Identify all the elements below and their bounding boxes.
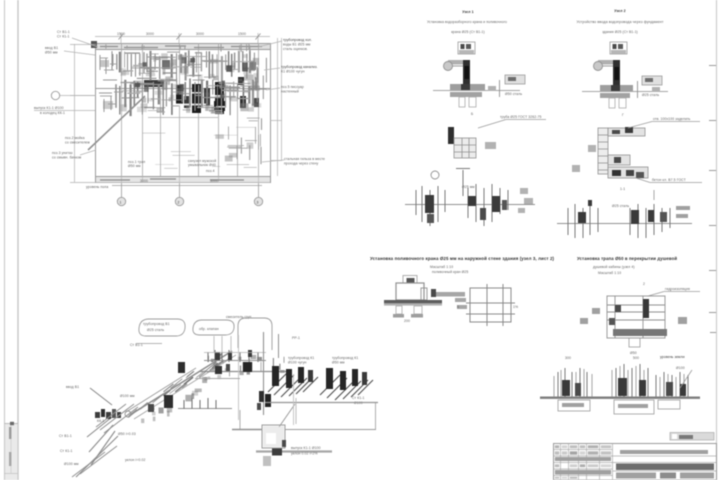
riser detail — [433, 60, 525, 107]
axono text blocks mid — [288, 356, 358, 365]
callout right 1 — [283, 38, 312, 51]
small box detail — [610, 42, 627, 54]
svg-text:3000: 3000 — [140, 179, 148, 183]
plan top wall band — [96, 44, 270, 50]
svg-text:поз.5 писсуар: поз.5 писсуар — [281, 85, 304, 89]
svg-text:уклон 0.02 i=2%: уклон 0.02 i=2% — [291, 452, 318, 456]
fan leaders lower-left — [76, 388, 118, 477]
valve blobs on diagonal — [148, 362, 185, 412]
callout right 3 — [281, 85, 304, 94]
sheet margin line inner — [17, 0, 19, 480]
svg-text:2: 2 — [178, 201, 180, 205]
svg-text:КК-1: КК-1 — [97, 419, 104, 423]
blob white slits — [174, 92, 226, 108]
svg-text:1%: 1% — [513, 305, 518, 309]
svg-text:Ø25 мм: Ø25 мм — [462, 185, 475, 189]
svg-text:поз.4: поз.4 — [206, 169, 215, 173]
svg-text:Ø100 мм: Ø100 мм — [64, 462, 79, 466]
callout left 1 — [57, 30, 70, 39]
svg-text:1-1: 1-1 — [620, 187, 625, 191]
right extension lines — [270, 38, 282, 176]
faint vertical at 238 — [238, 335, 240, 420]
axis circle 3 — [254, 197, 262, 205]
svg-text:3000: 3000 — [196, 32, 204, 36]
riser vertical to band — [278, 334, 280, 358]
callout left 4 — [65, 136, 90, 145]
small box detail — [458, 42, 475, 54]
bottom band with dark segment — [256, 450, 332, 452]
svg-text:здания Ø25 (Ст В1-1): здания Ø25 (Ст В1-1) — [602, 30, 638, 34]
svg-text:в колодец КК-1: в колодец КК-1 — [40, 111, 65, 115]
callout left 3 — [34, 106, 65, 115]
svg-text:Ø100 мм: Ø100 мм — [120, 394, 135, 398]
small box above stamp — [670, 433, 714, 441]
slab stack detail — [572, 113, 702, 191]
fixture band on axono — [208, 350, 258, 362]
callout left 2 — [45, 46, 58, 55]
svg-text:Ø25 сталь: Ø25 сталь — [612, 204, 629, 208]
node cluster — [96, 404, 138, 433]
dark marks on main horizontal — [215, 362, 252, 374]
twin cluster detail — [557, 190, 692, 238]
svg-text:300: 300 — [565, 356, 571, 360]
title — [427, 10, 507, 34]
svg-text:сталь оцинков.: сталь оцинков. — [283, 47, 308, 51]
below-line boxes — [558, 400, 680, 414]
plan diagonal leader — [88, 96, 145, 150]
svg-text:Ст К1-1: Ст К1-1 — [352, 396, 365, 400]
svg-text:Ø100: Ø100 — [676, 366, 685, 370]
svg-text:Ø25 сталь: Ø25 сталь — [147, 328, 164, 332]
plan dense texture — [100, 44, 267, 168]
svg-text:уклон i=0.02: уклон i=0.02 — [125, 458, 145, 462]
axono pipe texture — [72, 353, 285, 477]
vertical riser at 263 — [263, 332, 265, 415]
svg-text:Ø50 i=0.03: Ø50 i=0.03 — [118, 432, 136, 436]
junction well dark row — [95, 409, 121, 419]
outlet texts — [291, 446, 321, 456]
svg-text:Установка трапа Ø50 в перекрыт: Установка трапа Ø50 в перекрытии душевой — [577, 256, 677, 261]
diagonal into outlet — [279, 404, 295, 427]
ground line under clusters — [265, 402, 378, 404]
fan labels — [59, 385, 79, 466]
riser detail — [582, 60, 668, 108]
svg-text:Установка поливочного крана Ø2: Установка поливочного крана Ø25 мм на на… — [370, 256, 555, 261]
svg-text:поз.3 унитаз: поз.3 унитаз — [52, 151, 73, 155]
svg-text:Ø50 мм: Ø50 мм — [128, 164, 141, 168]
svg-text:Узел 1: Узел 1 — [462, 10, 474, 14]
svg-text:3000: 3000 — [210, 179, 218, 183]
cluster left — [558, 368, 587, 397]
corner detail — [448, 112, 546, 158]
svg-text:бетон кл. В7.5 ГОСТ: бетон кл. В7.5 ГОСТ — [652, 178, 686, 182]
extra thin strokes clusters — [554, 366, 684, 397]
fixture dark blobs — [91, 41, 259, 114]
twin cluster detail — [405, 169, 535, 227]
svg-text:отв. 100x100 заделать: отв. 100x100 заделать — [653, 117, 691, 121]
left revision table verticals — [561, 444, 613, 480]
axis circle A left — [51, 91, 59, 99]
axis circle 2 — [175, 197, 183, 205]
svg-text:ввод В1: ввод В1 — [45, 46, 58, 50]
sheet margin line outer — [4, 0, 6, 480]
axono right text — [352, 396, 365, 405]
svg-text:3: 3 — [257, 201, 259, 205]
svg-text:Установка водоразборного крана: Установка водоразборного крана и поливоч… — [427, 20, 507, 24]
svg-text:2: 2 — [643, 282, 645, 286]
svg-text:со смывн. бачком: со смывн. бачком — [52, 156, 82, 160]
svg-text:3000: 3000 — [146, 32, 154, 36]
stamp cell texture — [555, 445, 611, 478]
leader right — [680, 370, 692, 388]
svg-text:настенный: настенный — [281, 90, 299, 94]
verticals under band — [243, 362, 261, 372]
dark cluster on riser 263 — [257, 391, 271, 410]
structure — [607, 296, 665, 338]
plan outer walls — [96, 44, 271, 183]
svg-text:стальная гильза в месте: стальная гильза в месте — [284, 157, 325, 161]
svg-text:Масштаб 1:10: Масштаб 1:10 — [598, 271, 621, 275]
sheet right frame line — [716, 0, 718, 480]
svg-text:крана Ø25 (Ст В1-1): крана Ø25 (Ст В1-1) — [451, 30, 485, 34]
ground line — [540, 397, 700, 399]
long horizontal main — [200, 371, 292, 373]
svg-text:уровень земли: уровень земли — [660, 355, 685, 359]
hatch cluster A — [268, 372, 318, 397]
svg-text:поз.2 мойка: поз.2 мойка — [65, 136, 85, 140]
right frame fold ticks — [709, 66, 716, 333]
svg-text:выпуск К1-1 Ø100: выпуск К1-1 Ø100 — [291, 446, 321, 450]
left margin stamp rows — [5, 424, 19, 474]
left margin strip shading — [5, 424, 18, 480]
svg-text:1500: 1500 — [117, 32, 125, 36]
bottom wall band — [96, 177, 270, 183]
svg-text:200: 200 — [404, 319, 410, 323]
main stamp outline — [554, 444, 717, 480]
top dimension line — [95, 33, 270, 43]
svg-text:500: 500 — [633, 356, 639, 360]
callout left 5 — [52, 151, 82, 160]
svg-text:Ø50 сталь: Ø50 сталь — [505, 92, 522, 96]
bubble 1 — [139, 319, 185, 336]
plan left column marks — [99, 54, 117, 112]
svg-text:Ø100 чугун: Ø100 чугун — [288, 361, 307, 365]
svg-text:выпуск К1-1 Ø100: выпуск К1-1 Ø100 — [34, 106, 64, 110]
svg-text:трубопровод К1: трубопровод К1 — [288, 356, 314, 360]
svg-text:Ст В1-1: Ст В1-1 — [59, 434, 72, 438]
svg-text:PP-1: PP-1 — [292, 336, 300, 340]
callout right 2 — [281, 65, 318, 74]
svg-text:воды В1 Ø25 мм: воды В1 Ø25 мм — [283, 43, 311, 47]
svg-text:Ø50 мм: Ø50 мм — [332, 361, 345, 365]
bottom dimension line — [112, 183, 262, 197]
figure A — [384, 270, 468, 323]
cluster middle — [616, 364, 648, 397]
svg-text:поливочный кран Ø25: поливочный кран Ø25 — [432, 270, 468, 274]
svg-text:К1 Ø100 чугун: К1 Ø100 чугун — [281, 70, 305, 74]
svg-text:душевой кабины (узел 4): душевой кабины (узел 4) — [593, 265, 635, 269]
figure B grid — [457, 284, 518, 326]
stamp horizontals — [554, 450, 717, 476]
svg-text:прохода через стену: прохода через стену — [284, 162, 318, 166]
left margin stamp rotated text — [9, 422, 14, 466]
hatch cluster B — [320, 375, 373, 400]
svg-text:умывальник Ø40: умывальник Ø40 — [188, 163, 216, 167]
lower-left horizontal run — [178, 408, 232, 410]
svg-text:гидроизоляция: гидроизоляция — [665, 287, 690, 291]
stamp cell speckle — [555, 450, 708, 475]
svg-text:Ø25 сталь: Ø25 сталь — [642, 93, 659, 97]
svg-text:Г: Г — [622, 113, 624, 117]
svg-text:труба Ø25 ГОСТ 3262-75: труба Ø25 ГОСТ 3262-75 — [500, 115, 541, 119]
svg-text:Масштаб 1:10: Масштаб 1:10 — [430, 265, 453, 269]
svg-text:трубопровод канализ.: трубопровод канализ. — [281, 65, 318, 69]
cluster right — [656, 372, 688, 397]
outlet box — [262, 425, 286, 448]
long bottom horizontal — [232, 429, 262, 431]
plan inner room texts — [128, 159, 216, 173]
plan partitions — [122, 43, 259, 183]
svg-text:1: 1 — [120, 201, 122, 205]
svg-text:обр. клапан: обр. клапан — [199, 327, 219, 331]
svg-text:1500: 1500 — [238, 32, 246, 36]
svg-text:ввод В1: ввод В1 — [66, 385, 79, 389]
svg-text:Ст К1-1: Ст К1-1 — [57, 35, 70, 39]
leader — [648, 292, 664, 297]
left dimension line — [70, 44, 96, 183]
svg-text:со смесителем: со смесителем — [65, 141, 90, 145]
callout left 6 — [86, 185, 108, 189]
svg-text:Ст К1-1: Ст К1-1 — [60, 449, 73, 453]
svg-text:Ø50 мм: Ø50 мм — [45, 51, 58, 55]
main diagonal — [130, 351, 232, 415]
svg-text:Ø50: Ø50 — [630, 351, 637, 355]
callout right 4 — [284, 157, 325, 166]
svg-text:Ст В1-1: Ст В1-1 — [57, 30, 70, 34]
svg-text:Устройство ввода водопровода ч: Устройство ввода водопровода через фунда… — [576, 20, 663, 24]
axis circle 1 — [117, 197, 125, 205]
title — [576, 9, 663, 34]
dim marks — [565, 355, 685, 360]
svg-text:трубопровод К1: трубопровод К1 — [332, 356, 358, 360]
svg-text:уровень пола: уровень пола — [86, 185, 108, 189]
bubble 3 loop — [238, 318, 272, 350]
svg-text:трубопровод хол.: трубопровод хол. — [283, 38, 312, 42]
svg-text:трубопровод В1: трубопровод В1 — [143, 322, 170, 326]
stamp doc name dark — [616, 464, 714, 471]
bubble 2 — [193, 320, 234, 335]
svg-text:Узел 2: Узел 2 — [614, 9, 626, 13]
